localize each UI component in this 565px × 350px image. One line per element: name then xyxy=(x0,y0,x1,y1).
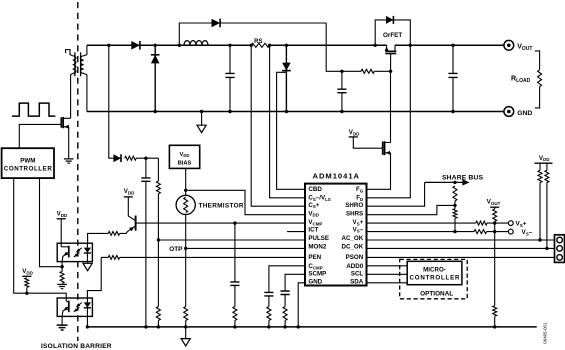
label VDD (left) xyxy=(22,268,33,276)
wire return rail xyxy=(87,111,504,113)
resistor R7 (VS+) xyxy=(476,221,487,225)
connector J1 xyxy=(555,235,565,263)
pin label SCMP xyxy=(308,270,326,277)
pin label PEN xyxy=(308,254,321,261)
wire U3 LED cathode to bottom rail xyxy=(86,316,88,327)
square-wave pulse symbol xyxy=(12,103,55,116)
svg-text:ADM1041A: ADM1041A xyxy=(313,171,360,180)
resistor R11 (AC_OK pull-up) xyxy=(538,163,542,240)
wire D4 tap to CBD pin xyxy=(277,72,305,189)
resistor R9 (sense top) xyxy=(493,207,497,231)
resistor R15 (VCMP) xyxy=(233,307,237,327)
wire share bus xyxy=(425,179,470,185)
wire PEN link to U3 LED xyxy=(87,257,101,298)
wire Q3 drain to gate node xyxy=(390,71,392,142)
wire PULSE tap to pin xyxy=(158,239,305,241)
wire bottom rail xyxy=(87,326,536,328)
label RS xyxy=(254,39,262,45)
svg-text:MICRO-: MICRO- xyxy=(423,267,446,274)
node R19 bottom rail xyxy=(267,325,270,328)
transistor OrFET (pass NMOS) xyxy=(385,45,397,71)
svg-text:SHRO: SHRO xyxy=(345,202,363,209)
svg-text:ICT: ICT xyxy=(308,226,318,233)
svg-text:ADD0: ADD0 xyxy=(346,263,363,270)
pin label FD xyxy=(356,195,363,202)
node C8 bottom xyxy=(451,110,454,113)
node DC_OK pull-up xyxy=(545,247,548,250)
resistor R5 (share top) xyxy=(453,186,457,201)
svg-text:ISOLATION BARRIER: ISOLATION BARRIER xyxy=(41,343,112,350)
pin label VCMP xyxy=(308,219,322,226)
resistor R6 (share bottom) xyxy=(453,209,457,232)
ground (below bottom rail) xyxy=(181,327,190,346)
resistor R8 (VS-) xyxy=(474,230,487,234)
transformer T1 core xyxy=(75,52,81,76)
resistor R3 (divider top) xyxy=(156,158,160,194)
svg-text:PWM: PWM xyxy=(20,157,35,164)
node R3b bottom rail xyxy=(157,325,160,328)
svg-text:GND: GND xyxy=(308,279,322,286)
transformer T1 secondary winding xyxy=(80,45,86,111)
pin label AC_OK xyxy=(342,235,364,242)
pin label CS-/VLS xyxy=(308,195,330,202)
node U2 emitter xyxy=(60,265,63,268)
node R13 bottom rail xyxy=(184,325,187,328)
ground (return rail) xyxy=(197,110,206,133)
resistor R3b (divider bottom) xyxy=(156,240,160,327)
wire R7 to terminal xyxy=(487,222,508,224)
node thermistor top xyxy=(184,189,187,192)
thermistor RT1 xyxy=(176,195,195,214)
label RLOAD xyxy=(511,76,531,85)
diode D4 xyxy=(282,45,291,111)
label VDD (Q2 collector) xyxy=(124,188,135,197)
optocoupler U3 xyxy=(57,298,92,316)
label GND terminal xyxy=(517,110,532,117)
wire R4 to gate xyxy=(374,70,390,72)
label VOUT terminal xyxy=(517,44,532,53)
svg-text:PSON: PSON xyxy=(346,254,364,261)
wire ADD0 line xyxy=(367,265,408,267)
wire Q3 source to FG pin xyxy=(367,153,391,190)
node OrFET loop left xyxy=(374,44,377,47)
node VDD-C xyxy=(144,157,147,160)
node PULSE tap xyxy=(157,238,160,241)
resistor R14 (Q2 emitter) xyxy=(108,231,119,235)
wire top rail (V rail) xyxy=(87,44,504,46)
diode D5 (OrFET body) xyxy=(386,16,393,24)
wire SDA line xyxy=(367,282,408,284)
resistor RS (current sense) xyxy=(251,43,269,47)
node share divider xyxy=(453,204,456,207)
ground (U3 emitter) xyxy=(57,325,68,330)
wire thermistor down xyxy=(185,215,187,307)
pin label SHRO xyxy=(345,202,363,209)
wire VOUT sense bar xyxy=(490,206,499,208)
wire thermistor node to VDD pin xyxy=(186,190,305,214)
label OTP xyxy=(169,246,183,253)
svg-text:THERMISTOR: THERMISTOR xyxy=(199,203,244,210)
label OrFET xyxy=(383,32,402,39)
wire OrFET bypass loop xyxy=(375,20,410,45)
wire SHRS to divider xyxy=(367,205,456,214)
wire SHRO to share bus xyxy=(367,182,425,206)
node R17 bottom xyxy=(25,292,28,295)
pin label CS+ xyxy=(308,202,319,209)
node U3 LED on bottom rail xyxy=(86,325,89,328)
svg-text:GND: GND xyxy=(517,110,532,117)
wire U2 emitter xyxy=(61,262,63,272)
ground (primary, below Q1) xyxy=(64,159,74,163)
pin label VS+ xyxy=(352,219,363,226)
pin label MON2 xyxy=(308,244,326,251)
svg-text:CONTROLLER: CONTROLLER xyxy=(410,275,461,282)
resistor R17 (left VDD) xyxy=(25,278,29,293)
wire PWM pin to optocoupler U3 collector xyxy=(14,178,66,301)
node OrFET loop right xyxy=(409,44,412,47)
resistor R13 (thermistor bottom) xyxy=(184,307,188,327)
wire OTP to MON2 pin xyxy=(186,247,305,249)
node VS+ sense xyxy=(493,221,496,224)
svg-text:BIAS: BIAS xyxy=(178,161,192,167)
node R20 bottom rail xyxy=(283,325,286,328)
svg-text:PEN: PEN xyxy=(308,254,321,261)
node RS right xyxy=(268,44,271,47)
pin label PULSE xyxy=(308,235,329,242)
resistor R4 (gate) xyxy=(361,69,374,73)
node C8 top xyxy=(451,44,454,47)
resistor R2 (VDD supply) xyxy=(125,156,137,160)
capacitor C5 (VCMP) xyxy=(230,223,239,306)
svg-text:MON2: MON2 xyxy=(308,244,326,251)
transformer T1 primary winding xyxy=(66,50,76,119)
inductor L1 (output choke) xyxy=(184,41,208,46)
wire R8 to terminal xyxy=(487,231,509,233)
wire VS+ line xyxy=(367,222,476,224)
VDD BIAS box xyxy=(169,145,199,168)
label VDD (opto U2) xyxy=(57,211,68,219)
node RS left xyxy=(250,44,253,47)
transistor Q3 (FG drive NMOS) xyxy=(383,141,391,155)
svg-text:OrFET: OrFET xyxy=(383,32,402,39)
wire VDD to U2 collector xyxy=(60,219,62,247)
terminal VS+ xyxy=(508,221,513,226)
node (rail to VDD-diode feed) xyxy=(107,44,110,47)
svg-text:SCMP: SCMP xyxy=(308,270,326,277)
wire R14 to opto U2 LED xyxy=(88,233,109,243)
wire PEN to pin xyxy=(101,256,305,258)
diode D2 (freewheel) xyxy=(151,45,160,111)
diode D3 (bypass) xyxy=(212,19,221,28)
label ADM1041A xyxy=(313,171,360,180)
capacitor C2 (gate) xyxy=(337,71,346,111)
ground (U2 LED cathode) xyxy=(83,262,92,271)
svg-text:SCL: SCL xyxy=(351,270,364,277)
node OrFET gate xyxy=(389,70,392,73)
terminal VOUT xyxy=(504,40,514,50)
label VDD (pull-ups) xyxy=(535,155,553,163)
wire DC_OK line xyxy=(367,247,555,249)
wire divider mid xyxy=(157,194,159,240)
wire U3 emitter xyxy=(61,316,63,325)
node R15 bottom rail xyxy=(233,325,236,328)
svg-text:SHRS: SHRS xyxy=(346,210,363,217)
node VCMP RC xyxy=(233,221,236,224)
capacitor C7 (SCMP) xyxy=(281,274,306,306)
resistor R16 (U2 emitter) xyxy=(60,271,64,283)
resistor R12 (DC_OK pull-up) xyxy=(545,163,549,248)
node share to VS- line xyxy=(453,230,456,233)
wire rail to D6 xyxy=(109,45,114,158)
node C2 bottom xyxy=(340,110,343,113)
label SHARE BUS xyxy=(442,174,483,181)
node C1 bottom xyxy=(228,110,231,113)
svg-text:DC_OK: DC_OK xyxy=(342,244,364,251)
pin label PSON xyxy=(346,254,364,261)
pin label SCL xyxy=(351,270,364,277)
wire ICT stub xyxy=(287,231,305,233)
pin label ADD0 xyxy=(346,263,363,270)
wire RS left to CS+ pin xyxy=(251,45,305,206)
label figure number xyxy=(542,322,547,344)
optional box (dashed) xyxy=(400,259,468,298)
svg-text:CONTROLLER: CONTROLLER xyxy=(4,166,53,173)
wire SCL line xyxy=(367,273,408,275)
wire PSON line xyxy=(367,256,555,258)
pin label DC_OK xyxy=(342,244,364,251)
label VOUT sense xyxy=(487,199,501,206)
transistor Q1 (primary switch NMOS) xyxy=(61,117,70,159)
capacitor C8 (output) xyxy=(448,45,457,111)
node AC_OK pull-up xyxy=(538,238,541,241)
node (rail at D2) xyxy=(154,44,157,47)
wire GND pin to bottom rail xyxy=(298,283,305,327)
PWM controller box xyxy=(2,148,54,178)
wire PWM output to Q1 gate xyxy=(19,124,61,148)
wire FD pin to rail xyxy=(367,45,411,198)
node GND bottom rail xyxy=(297,325,300,328)
pin label FG xyxy=(356,186,364,193)
op-amp U1 (ADM1041A controller IC) xyxy=(305,184,367,286)
optocoupler U2 xyxy=(57,243,92,261)
pin label ICT xyxy=(308,226,318,233)
wire bypass branch xyxy=(179,23,342,71)
svg-text:PULSE: PULSE xyxy=(308,235,329,242)
svg-text:OPTIONAL: OPTIONAL xyxy=(420,290,453,297)
node OTP xyxy=(184,247,187,250)
wire R5-R6 xyxy=(454,201,456,209)
wire PWM pin to optocoupler U2 node xyxy=(40,178,63,267)
wire VDD to Q2 collector xyxy=(128,197,135,220)
pin label VDD xyxy=(308,210,318,217)
terminal GND xyxy=(504,107,514,117)
resistor R19 (CCMP) xyxy=(267,307,271,327)
pin label SHRS xyxy=(346,210,363,217)
transistor Q2 (PNP) xyxy=(120,216,305,234)
pin label CCMP xyxy=(308,263,322,270)
svg-text:SDA: SDA xyxy=(350,279,364,286)
wire R2 to VDD node xyxy=(136,157,158,159)
node share bus xyxy=(453,181,456,184)
label ISOLATION BARRIER xyxy=(41,343,112,350)
ground (U2 emitter) xyxy=(57,284,67,288)
node R10 bottom rail xyxy=(493,325,496,328)
wire gate node xyxy=(342,70,361,72)
node VS- sense xyxy=(493,230,496,233)
pin label VS- xyxy=(353,226,364,233)
node C1 top xyxy=(228,44,231,47)
label THERMISTOR xyxy=(199,203,244,210)
resistor R10 (sense bottom) xyxy=(493,306,497,327)
pin label GND xyxy=(308,279,322,286)
node (bypass branch) xyxy=(178,44,181,47)
capacitor C6 (CCMP) xyxy=(264,266,305,307)
node D4 top xyxy=(285,44,288,47)
label VDD (Q3 gate) xyxy=(349,129,360,137)
label OPTIONAL xyxy=(420,290,453,297)
diode D6 (VDD supply) xyxy=(113,154,121,162)
label VS+ xyxy=(516,221,527,228)
node D2 return rail xyxy=(154,110,157,113)
node C2 top xyxy=(340,70,343,73)
label VS- xyxy=(522,229,533,236)
resistor R18 (PEN) xyxy=(108,255,119,259)
pin label CBD xyxy=(308,186,322,193)
terminal VS- xyxy=(508,229,513,234)
svg-text:CBD: CBD xyxy=(308,186,322,193)
diode D1 (secondary rectifier) xyxy=(131,41,140,50)
svg-text:AC_OK: AC_OK xyxy=(342,235,364,242)
wire RS right to CS- pin xyxy=(270,45,305,198)
wire sense divider xyxy=(494,232,496,306)
capacitor C1 (filter) xyxy=(225,45,234,111)
resistor R20 (SCMP) xyxy=(283,307,287,327)
wire VS- line xyxy=(367,231,475,233)
svg-text:VDD: VDD xyxy=(180,152,190,158)
svg-text:OTP: OTP xyxy=(169,246,183,253)
micro-controller box xyxy=(407,261,462,284)
resistor RLOAD xyxy=(535,51,542,108)
node D4 return rail xyxy=(285,110,288,113)
svg-text:06405-001: 06405-001 xyxy=(542,322,547,344)
pin label SDA xyxy=(350,279,364,286)
wire VDD to Q3 gate xyxy=(353,137,382,148)
isolation barrier (dashed line) xyxy=(77,2,79,341)
wire AC_OK line xyxy=(367,239,555,241)
wire VDD BIAS to node xyxy=(185,168,187,195)
capacitor C4 (VDD) xyxy=(141,158,150,327)
node C4 bottom rail xyxy=(144,325,147,328)
